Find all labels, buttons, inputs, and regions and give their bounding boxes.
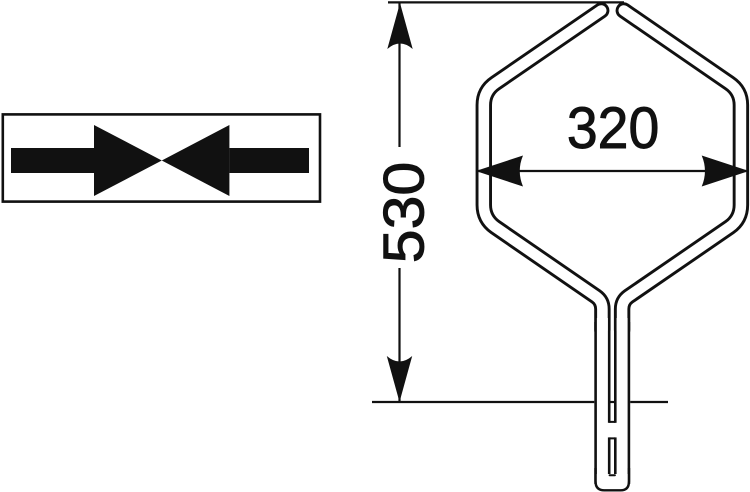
tool interior: right handle	[617, 318, 628, 484]
dimension 320 shaft	[478, 170, 746, 172]
tool silhouette: left rod handle	[594, 322, 610, 484]
handle bottom cap outline	[596, 468, 630, 490]
valve left triangle	[94, 125, 162, 196]
ground line left segment	[372, 401, 594, 403]
valve left bar	[11, 148, 94, 173]
dimension line 530 lower segment	[398, 268, 400, 402]
tool silhouette: right rod handle	[614, 322, 630, 484]
seam dash2 bottom closure	[610, 474, 615, 476]
valve symbol frame	[3, 114, 320, 201]
tool silhouette: left rod outer	[484, 11, 603, 331]
svg-text:320: 320	[567, 96, 659, 162]
ground line bridge in seam gap	[608, 401, 617, 403]
ground line right segment	[630, 401, 668, 403]
arrowhead top (530)	[387, 3, 412, 49]
svg-text:530: 530	[371, 162, 436, 264]
handle bottom cap fill	[597, 474, 628, 489]
valve right triangle	[162, 125, 230, 196]
seam gap patch	[606, 423, 618, 438]
tool interior: right rod	[622, 11, 741, 331]
valve right bar	[229, 148, 309, 173]
arrowhead right (320)	[702, 156, 749, 187]
arrowhead left (320)	[476, 156, 523, 187]
seam dash1 end closure	[610, 421, 615, 423]
dimension line 530 upper segment	[398, 3, 400, 147]
tool interior: left rod	[484, 11, 603, 331]
top extension line	[388, 1, 624, 3]
seam dash2 top closure	[610, 437, 615, 439]
tool interior: left handle	[597, 318, 608, 484]
tool silhouette: right rod outer	[622, 11, 741, 331]
arrowhead bottom (530)	[387, 356, 412, 402]
